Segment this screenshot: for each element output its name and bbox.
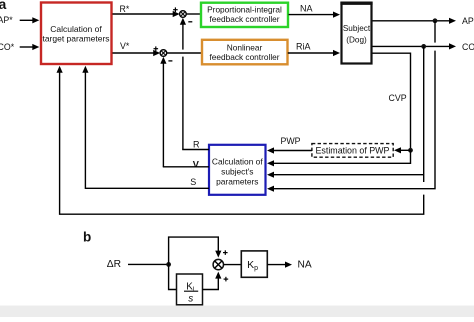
wire dR input [128, 263, 169, 265]
svg-text:parameters: parameters [216, 177, 258, 187]
svg-text:V: V [193, 159, 200, 169]
svg-text:R*: R* [120, 4, 130, 14]
block: Kp gain [241, 251, 267, 277]
minus sign at S1 feedback input [188, 21, 192, 23]
wire NA from green box to subject [289, 14, 335, 16]
block: Estimation of PWP (dashed box) [312, 144, 393, 158]
wire NA output of part b [267, 264, 286, 266]
wire R* from red box to summing junction [113, 13, 175, 15]
wire AP feedback: down from AP dot (break at CO line) to blue box input 4 [434, 21, 436, 43]
svg-text:CO*: CO* [0, 42, 15, 52]
svg-text:(Dog): (Dog) [346, 36, 367, 45]
wire V feedback vertical up to S2 [162, 61, 164, 167]
svg-text:a: a [0, 0, 7, 12]
block: Subject (Dog) [340, 3, 372, 64]
plus sign at V* summing input [154, 48, 159, 50]
wire AP* input arrow [20, 19, 34, 21]
svg-text:R: R [193, 139, 200, 149]
svg-text:b: b [83, 229, 91, 244]
summing junction S2 (V*) [160, 50, 167, 57]
svg-text:AP*: AP* [0, 15, 13, 25]
wire S3 output to Kp box [224, 264, 242, 266]
wire S2 output to orange box [167, 52, 202, 54]
svg-text:feedback controller: feedback controller [209, 14, 279, 24]
svg-text:Estimation of PWP: Estimation of PWP [316, 146, 390, 156]
wire R output from blue box, horizontal [182, 149, 209, 151]
svg-text:S: S [190, 177, 196, 187]
svg-text:NA: NA [300, 3, 313, 13]
wire S1 output to green box [186, 13, 201, 15]
svg-text:s: s [188, 294, 193, 305]
wire CO* input arrow [20, 46, 34, 48]
svg-text:CO: CO [462, 42, 474, 52]
node CVP junction dot [408, 148, 413, 153]
block: Ki/s integrator [177, 274, 203, 305]
block: Nonlinear feedback controller (orange box) [202, 40, 288, 65]
svg-text:Calculation of: Calculation of [212, 157, 263, 167]
node AP junction dot [433, 18, 438, 23]
svg-text:feedback controller: feedback controller [209, 52, 279, 62]
wire V output from blue box, horizontal [163, 166, 209, 168]
wire CVP from subject down to PWP estimation [373, 53, 411, 149]
svg-text:Subject: Subject [343, 24, 371, 33]
plus sign at R* summing input [173, 9, 178, 11]
node CO junction dot [421, 44, 426, 49]
decorative bottom strip [0, 306, 474, 318]
minus sign at S2 feedback input [168, 60, 172, 62]
svg-text:NA: NA [298, 260, 312, 271]
svg-text:ΔR: ΔR [107, 259, 121, 270]
wire S output from blue box to red box bottom [85, 71, 209, 189]
wire V* from red box to summing junction [113, 52, 156, 54]
wire integral branch down into Ki/s box [169, 264, 177, 289]
svg-text:AP: AP [462, 16, 474, 26]
plus sign at S3 top input [223, 252, 228, 254]
wire CO feedback lower segment to bottom rail into red box [60, 71, 424, 215]
summing junction S3 [213, 259, 223, 269]
block: Calculation of subject's parameters (blue box) [209, 145, 266, 195]
wire CO feedback: down from CO dot, branch to blue box input 3 [423, 46, 425, 182]
wire from Ki/s box up into S3 bottom [203, 276, 219, 289]
svg-text:RiA: RiA [296, 42, 311, 52]
wire PWP from dashed box to blue box input 1 [273, 150, 312, 152]
wire R feedback vertical up to S1 (break at V* line crossing) [182, 57, 184, 150]
node b input junction dot [166, 262, 171, 267]
block: Proportional-integral feedback controller (green box) [201, 3, 288, 27]
wire CVP branch down into blue box input 2 [273, 150, 411, 163]
wire CO output from subject [373, 45, 451, 47]
block: Calculation of target parameters (red box) [41, 3, 112, 65]
wire proportional branch (up and over) into S3 top [169, 237, 219, 264]
svg-text:target parameters: target parameters [42, 33, 109, 43]
plus sign at S3 bottom input [224, 278, 229, 280]
svg-text:Calculation of: Calculation of [50, 24, 102, 34]
svg-text:PWP: PWP [281, 136, 301, 146]
wire from CVP dot into dashed estimation box [399, 149, 411, 151]
wire RiA from orange box to subject [288, 52, 335, 54]
svg-text:subject's: subject's [221, 167, 253, 177]
summing junction S1 (R*) [180, 11, 187, 18]
svg-text:V*: V* [120, 41, 130, 51]
wire AP output from subject [373, 20, 451, 22]
svg-text:CVP: CVP [389, 93, 407, 103]
